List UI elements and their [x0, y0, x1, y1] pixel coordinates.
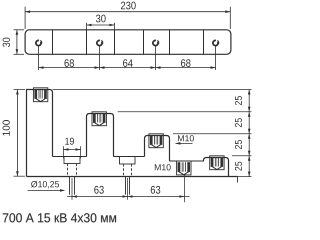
ledge between step2 and step3: [114, 156, 145, 158]
busbar body outline: [25, 30, 231, 55]
boss box under stem 1: [64, 157, 80, 164]
hidden hole dashes stem 1: [67, 164, 69, 177]
thread hole on step 2: [92, 112, 106, 126]
dimension 19: [64, 138, 81, 159]
step 2 column: [87, 114, 114, 157]
extension line level 1: [53, 89, 252, 91]
segment divider line 3: [114, 30, 116, 55]
thread hole on step 1: [33, 88, 47, 102]
hole 4 top view: [213, 40, 219, 45]
right end tab: [237, 177, 239, 183]
boss box under stem 2: [120, 157, 136, 165]
dimension 100 left: [3, 90, 25, 177]
bottom dimension 63 second: [151, 175, 185, 203]
hole 1 top view: [36, 40, 42, 45]
segment divider line 6: [203, 30, 205, 55]
dimension chain 68 64 68: [39, 46, 216, 70]
extension line bottom level: [238, 176, 252, 178]
dimension 230: [25, 2, 230, 29]
segment divider line 5: [169, 30, 171, 55]
thread hole on step 4: [210, 156, 224, 170]
extension line level 3: [173, 133, 252, 135]
hole 2 top view: [97, 40, 103, 45]
step 3 column: [145, 136, 170, 162]
ledge between step1 and step2: [53, 156, 87, 158]
label M10 upper with leader: [175, 135, 194, 145]
bottom dimension 63 first: [67, 178, 190, 200]
dimension 30 (hole segment width): [87, 15, 115, 30]
pin 1: [69, 177, 71, 195]
dimension 30 (bar height, left): [3, 30, 24, 55]
segment divider line 2: [86, 30, 88, 55]
thread hole on step 3: [149, 134, 163, 148]
step 1 column: [27, 90, 53, 177]
hole 3 top view: [153, 40, 159, 45]
segment divider line 1: [52, 30, 54, 55]
step 4 column: [204, 158, 229, 177]
recessed ledge between step3 and step4: [170, 160, 204, 162]
web bottom edge: [27, 176, 238, 178]
hidden hole dashes stem 2: [123, 164, 125, 177]
label M10 lower: [155, 164, 171, 170]
segment divider line 4: [143, 30, 145, 55]
dimension chain 25 x4 right: [235, 90, 251, 177]
pin 2: [125, 177, 127, 195]
title text: [3, 213, 116, 222]
extension line level 4: [232, 155, 252, 157]
thread hole on recessed ledge M10: [177, 161, 191, 175]
label diameter 10,25 with leader: [28, 181, 66, 192]
extension line level 2: [118, 111, 252, 113]
